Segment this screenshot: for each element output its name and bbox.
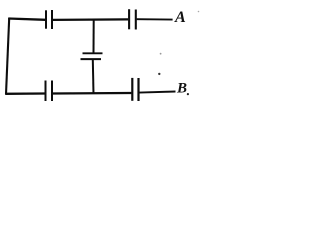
wire top segment from corner to C1 <box>8 19 45 20</box>
wire top segment from C2 to terminal A <box>137 18 173 20</box>
wire middle vertical upper stub <box>93 19 95 54</box>
svg-text:B: B <box>176 81 187 97</box>
period after B <box>187 93 189 95</box>
capacitor C1 <box>46 10 52 29</box>
svg-text:A: A <box>174 8 186 26</box>
capacitor C3 <box>81 53 103 59</box>
wire bottom segment from C5 to terminal B <box>139 92 175 93</box>
wire bottom segment from corner to C4 <box>5 92 44 95</box>
capacitor C4 <box>46 81 53 102</box>
wire top segment from C1 to C2 <box>53 18 128 21</box>
wire left vertical <box>6 18 9 94</box>
speck near middle right <box>158 73 160 75</box>
faint speck upper right of C3 <box>160 53 162 55</box>
capacitor C2 <box>129 9 136 29</box>
wire middle vertical lower stub <box>92 59 95 94</box>
wire bottom segment from C4 to C5 <box>53 92 131 95</box>
capacitor C5 <box>132 78 138 101</box>
faint speck after A <box>198 11 200 13</box>
